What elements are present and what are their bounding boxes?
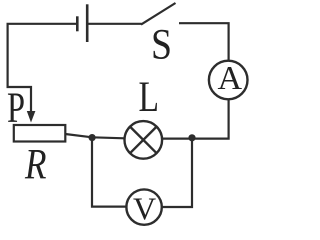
- svg-text:V: V: [133, 190, 156, 226]
- svg-text:L: L: [139, 74, 160, 121]
- svg-text:A: A: [218, 60, 243, 97]
- svg-text:S: S: [151, 22, 172, 69]
- svg-text:R: R: [24, 142, 46, 189]
- svg-text:P: P: [7, 85, 25, 132]
